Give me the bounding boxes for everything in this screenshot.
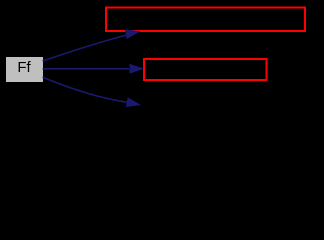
node box2 (red border, middle)	[144, 59, 267, 80]
node Ff	[6, 57, 43, 82]
svg-text:Ff: Ff	[17, 59, 31, 76]
node box1 (red border, top)	[106, 8, 305, 32]
edge Ff->box1	[43, 29, 141, 61]
edge Ff->box2	[43, 64, 144, 74]
edge Ff->box3 (box3 invisible on black)	[43, 77, 141, 107]
